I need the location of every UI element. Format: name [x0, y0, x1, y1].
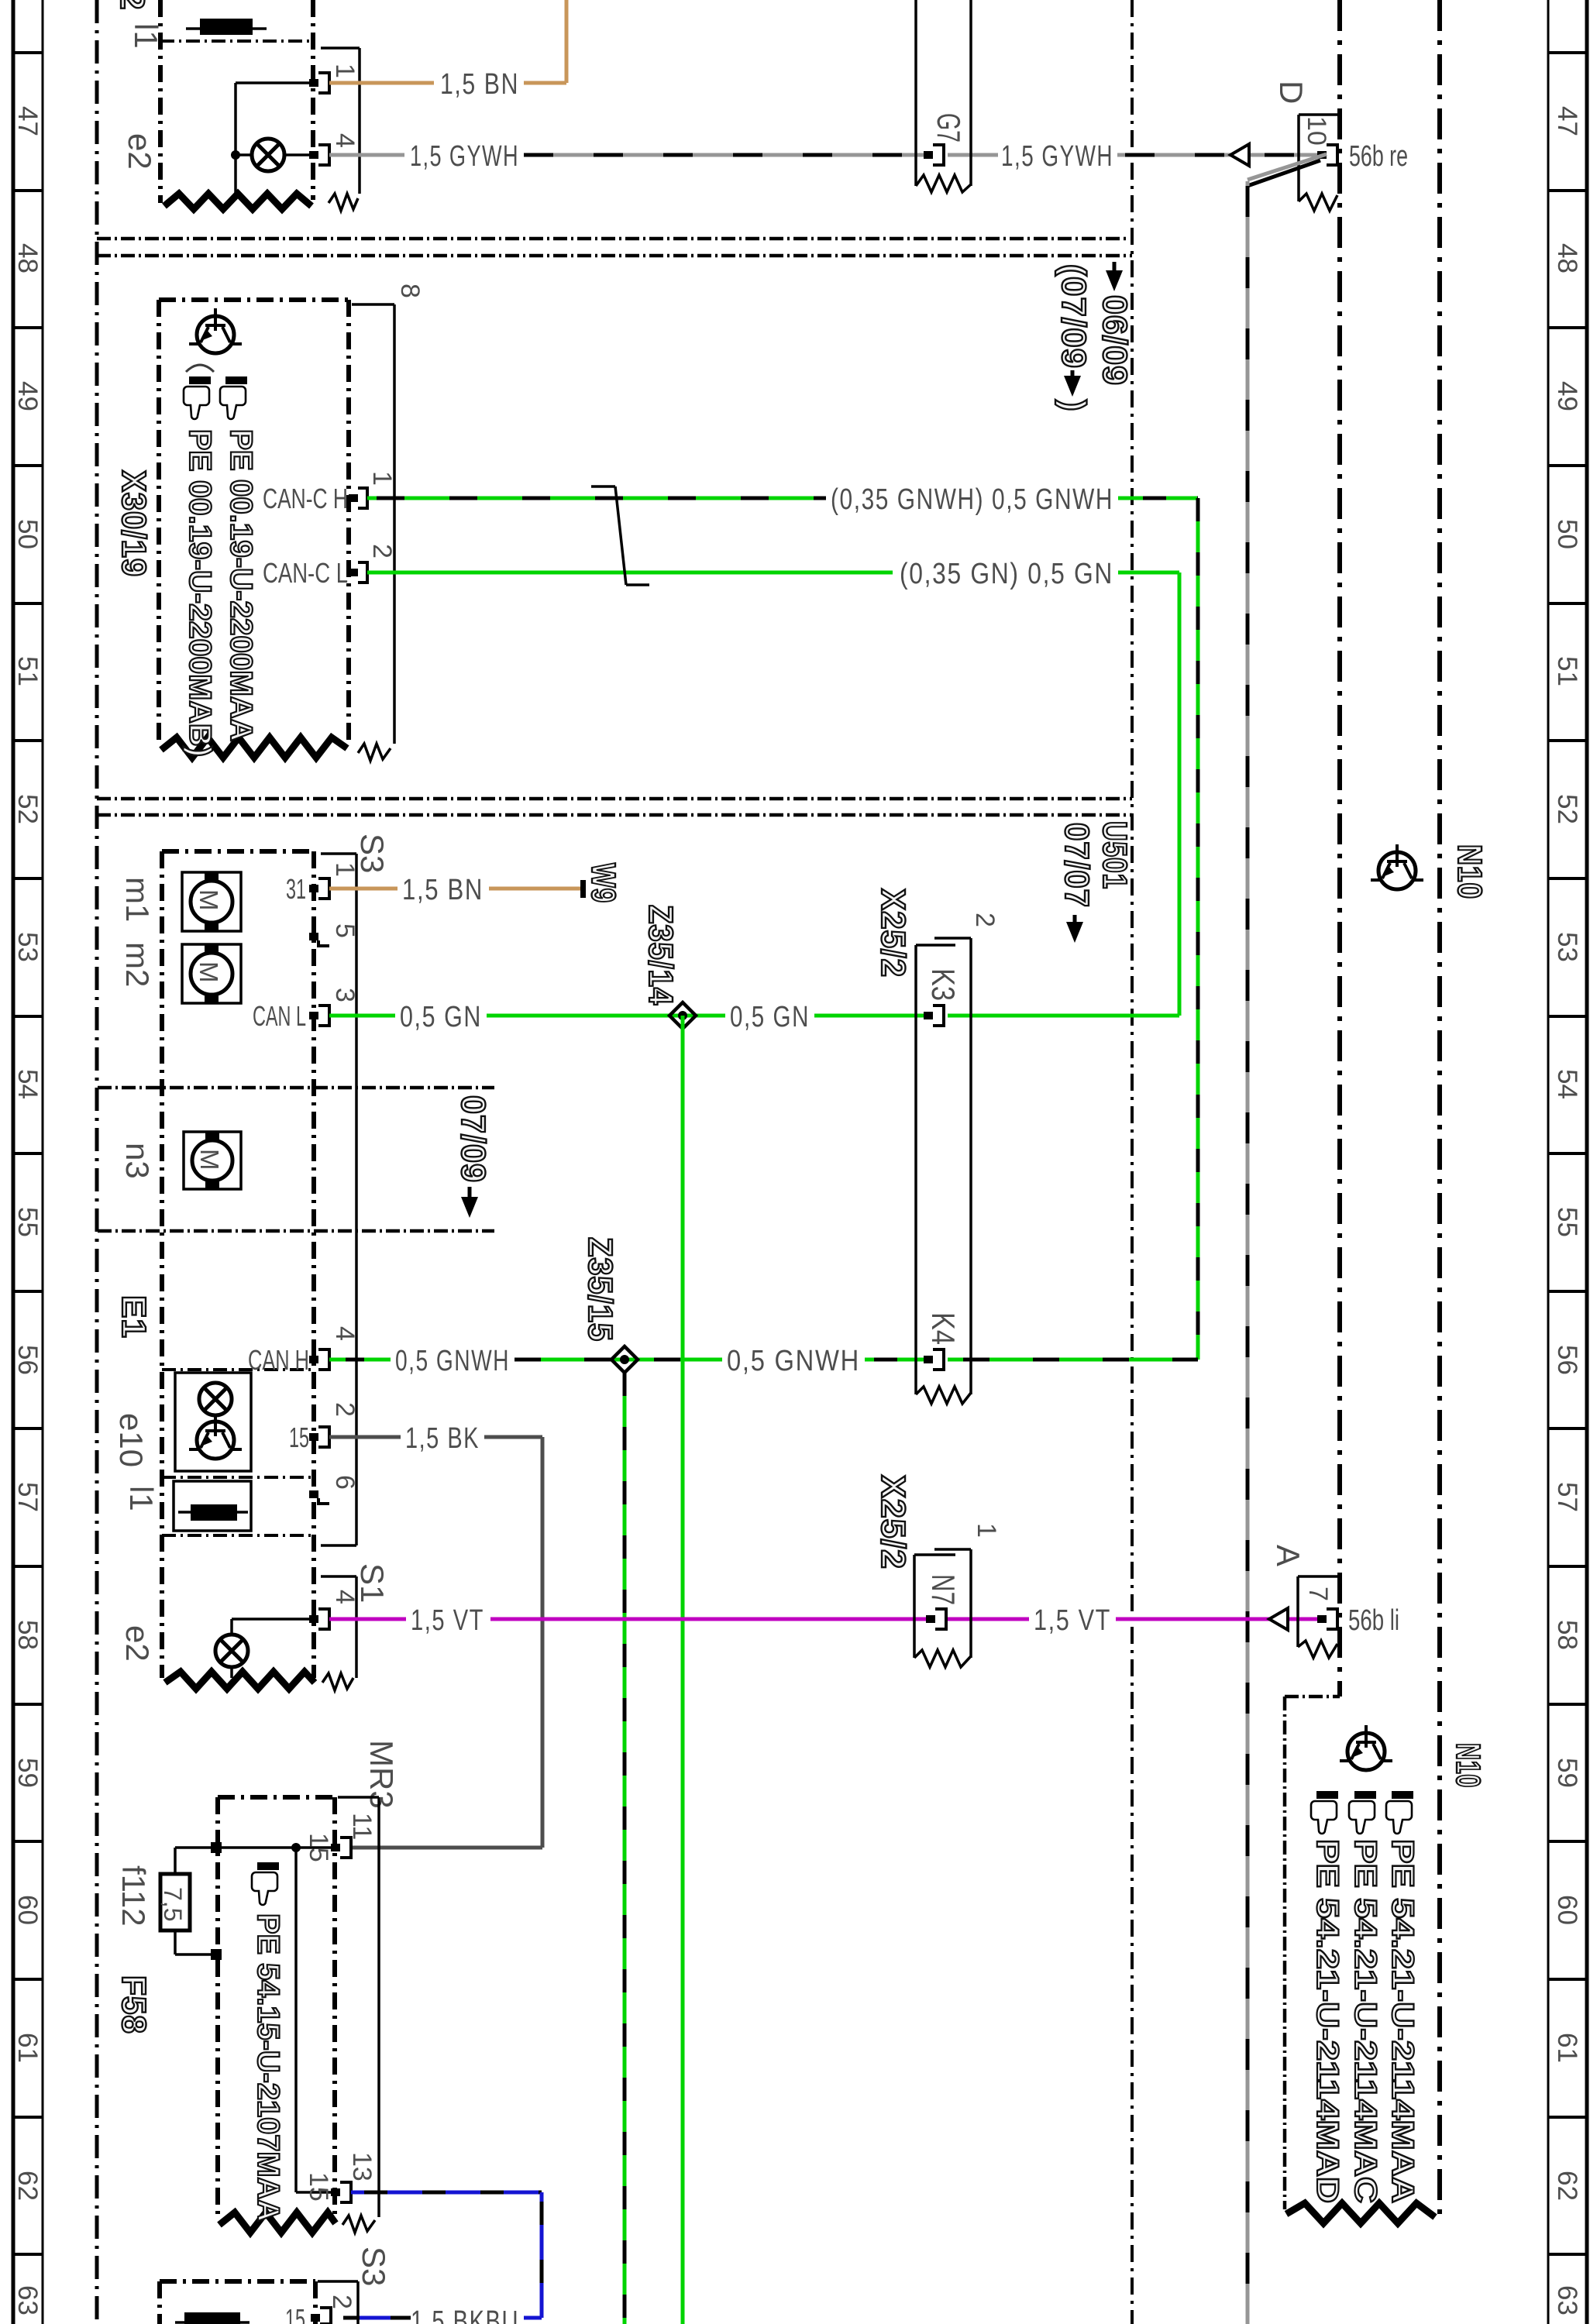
hand symbol PE MAB: [184, 376, 211, 419]
ground zigzag E1 bottom: [165, 1672, 315, 1689]
label 07/07 with arrow: [1058, 823, 1096, 943]
motor m1: [182, 872, 241, 931]
notch f112 top: [211, 1842, 222, 1853]
label f112: [115, 1865, 152, 1927]
svg-text:U501: U501: [1096, 821, 1134, 889]
label G7: [931, 113, 967, 143]
connector line S1: [321, 1576, 356, 1690]
wire 1,5 BKBU: [343, 2192, 542, 2318]
svg-text:X25/2: X25/2: [874, 889, 912, 978]
svg-text:07/07: 07/07: [1058, 823, 1096, 908]
label PE 54.21-U-2114MAA: [1385, 1839, 1420, 2203]
wire label 1,5 BK: [405, 1422, 480, 1455]
pin 7 of A: [1317, 1609, 1337, 1629]
svg-text:15: 15: [289, 1422, 309, 1453]
label Z35/14: [642, 905, 680, 1006]
wire label 0,5 GN (left): [400, 1001, 482, 1033]
svg-text:0,5 GNWH: 0,5 GNWH: [727, 1345, 860, 1377]
label l1 (top): [128, 23, 164, 49]
svg-text:48: 48: [12, 243, 43, 273]
svg-text:3: 3: [330, 988, 360, 1002]
label 56b re: [1349, 140, 1408, 173]
wire GN vertical tap Z35/14: [681, 1016, 685, 2324]
ground terminal W9: [580, 880, 586, 898]
motor m2: [182, 944, 241, 1003]
svg-text:A: A: [1270, 1545, 1306, 1566]
svg-text:56: 56: [1552, 1345, 1582, 1375]
svg-text:15: 15: [285, 2303, 305, 2324]
svg-text:): ): [1055, 400, 1093, 412]
label D: [1273, 81, 1310, 104]
ground zigzag N10 frame bottom: [1286, 2203, 1435, 2223]
pin label 2 (X25/2): [970, 913, 1000, 927]
ground zigzag e2 box bottom: [164, 194, 311, 209]
label F58: [115, 1975, 153, 2034]
label m1: [119, 877, 156, 922]
svg-text:m1: m1: [119, 877, 156, 922]
connector X25/2 (1) box: [914, 1549, 971, 1667]
svg-text:11: 11: [347, 1813, 377, 1840]
wire 0,5 GN (CAN L): [329, 1014, 1179, 1018]
lamp e2 (lower): [215, 1619, 314, 1678]
svg-text:CAN-C L: CAN-C L: [263, 557, 348, 589]
pin label 7: [1303, 1587, 1333, 1601]
connector line MR3: [338, 1797, 379, 2233]
label S3: [354, 834, 391, 873]
wire 1,5 VT: [329, 1618, 1322, 1621]
svg-text:N10: N10: [1451, 844, 1488, 899]
svg-text:G7: G7: [931, 113, 967, 143]
svg-text:50: 50: [1552, 519, 1582, 549]
box X30/19: [159, 300, 349, 745]
label X25/2 (2): [874, 889, 912, 978]
connector X25/2 (2) box: [916, 938, 971, 1404]
ground zigzag X30/19 bottom: [161, 737, 347, 758]
svg-text:56b li: 56b li: [1348, 1604, 1399, 1637]
pin 3 of S3 (CAN L): [253, 1000, 329, 1032]
svg-text:60: 60: [1552, 1895, 1582, 1925]
wire label 1,5 VT (left): [411, 1604, 484, 1637]
label S1: [354, 1563, 391, 1603]
label E1: [115, 1295, 153, 1339]
paren before hand (X30/19): [186, 365, 214, 372]
connector line S3: [321, 854, 356, 1545]
fuse f112: [159, 1874, 190, 1930]
svg-text:1,5 GYWH: 1,5 GYWH: [410, 140, 519, 173]
svg-text:D: D: [1273, 81, 1310, 104]
svg-text:PE 54.21-U-2114MAD: PE 54.21-U-2114MAD: [1310, 1839, 1344, 2203]
junction dot MR3: [291, 1843, 301, 1852]
svg-text:13: 13: [347, 2152, 377, 2181]
svg-text:M: M: [195, 1149, 224, 1171]
wire label 0,5 GNWH (right): [727, 1345, 860, 1377]
wire label 0,5 GNWH (left): [395, 1345, 510, 1377]
pin 1 of S3 (term 31): [286, 873, 329, 905]
svg-text:52: 52: [12, 794, 43, 824]
label W9: [584, 863, 622, 903]
svg-text:1: 1: [972, 1523, 1001, 1538]
svg-text:K4: K4: [925, 1312, 962, 1345]
svg-text:50: 50: [12, 519, 43, 549]
pin label 1 (S3): [330, 862, 360, 877]
control-unit symbol inside e10: [189, 1415, 242, 1459]
label n3: [119, 1143, 156, 1179]
svg-text:60: 60: [12, 1895, 43, 1925]
wire internal MR3 down: [296, 1848, 331, 2192]
pin G7: [924, 145, 944, 165]
svg-text:PE 54.15-U-2107MAA: PE 54.15-U-2107MAA: [251, 1913, 285, 2222]
label 06/09 with arrow (top right variant): [1096, 262, 1134, 386]
label m2: [119, 942, 156, 987]
pin 2 of X30/19: [349, 562, 367, 583]
svg-text:CAN-C H: CAN-C H: [263, 483, 348, 514]
svg-text:51: 51: [1552, 656, 1582, 686]
svg-text:W9: W9: [584, 863, 622, 903]
left ruler border: [13, 0, 43, 2324]
svg-text:1: 1: [330, 64, 360, 78]
bus pair slash symbol: [591, 486, 649, 585]
label 2 (cut label top-left): [113, 0, 151, 10]
svg-text:15: 15: [304, 2172, 333, 2202]
arrow wire-direction 56b re: [1230, 144, 1249, 166]
label PE 54.21-U-2114MAC: [1348, 1839, 1382, 2203]
label K3: [925, 968, 962, 1001]
svg-text:1: 1: [367, 471, 397, 486]
svg-text:2: 2: [970, 913, 1000, 927]
svg-text:1,5 VT: 1,5 VT: [1034, 1604, 1111, 1637]
svg-text:e2: e2: [119, 1625, 156, 1662]
pin label 5 (S3): [330, 923, 360, 938]
pin label 3 (S3): [330, 988, 360, 1002]
svg-text:(0,35 GNWH) 0,5 GNWH: (0,35 GNWH) 0,5 GNWH: [831, 483, 1113, 516]
wire label 1,5 GYWH (right): [1001, 140, 1113, 173]
pin 13/15 of MR3 (bottom): [304, 2172, 351, 2202]
svg-text:2: 2: [113, 0, 151, 10]
wire label (0,35 GNWH) 0,5 GNWH: [831, 483, 1113, 516]
label e2 (lower): [119, 1625, 156, 1662]
svg-text:0,5 GNWH: 0,5 GNWH: [395, 1345, 510, 1377]
svg-text:PE 00.19-U-2200MAB): PE 00.19-U-2200MAB): [183, 429, 217, 757]
svg-text:63: 63: [12, 2285, 43, 2315]
label e2 (top): [122, 133, 158, 170]
svg-text:63: 63: [1552, 2285, 1582, 2315]
svg-text:n3: n3: [119, 1143, 156, 1179]
svg-text:57: 57: [1552, 1482, 1582, 1512]
svg-text:49: 49: [1552, 381, 1582, 411]
wire label 0,5 GN (right): [730, 1001, 810, 1033]
svg-text:M: M: [194, 961, 223, 983]
pin 4 of e2 (top box): [309, 145, 329, 165]
label 56b li: [1348, 1604, 1399, 1637]
label K4: [925, 1312, 962, 1345]
frame 07/09 bottom line: [98, 1229, 494, 1233]
svg-text:55: 55: [12, 1207, 43, 1237]
hand symbol N10 MAC: [1349, 1791, 1376, 1834]
pin 10 of D: [1317, 145, 1337, 165]
svg-text:4: 4: [330, 1326, 360, 1341]
wire 1,5 BN to W9: [329, 887, 580, 891]
svg-text:CAN H: CAN H: [248, 1344, 309, 1376]
svg-text:N10: N10: [1449, 1743, 1487, 1788]
svg-text:E1: E1: [115, 1295, 153, 1339]
box MR3: [218, 1797, 335, 2220]
frame border U501 vertical (dash-dot): [1131, 0, 1134, 2324]
label CAN-C H: [263, 483, 348, 514]
svg-text:1,5 BN: 1,5 BN: [440, 68, 519, 101]
svg-text:58: 58: [1552, 1620, 1582, 1650]
notch f112 bottom: [211, 1949, 222, 1960]
hand symbol MR3: [252, 1862, 279, 1905]
wire label 1,5 BN (top): [440, 68, 519, 101]
svg-text:10: 10: [1302, 116, 1331, 146]
svg-text:61: 61: [1552, 2033, 1582, 2063]
pin 6 of E1 (notch): [309, 1490, 329, 1504]
svg-text:7,5: 7,5: [159, 1887, 187, 1921]
svg-text:1,5 BKBU: 1,5 BKBU: [411, 2305, 519, 2324]
control-unit symbol N10 (bottom): [1340, 1725, 1392, 1770]
wire e2 internal pin1 to ground: [231, 83, 315, 200]
wire GYWH vertical run to 56b: [1246, 181, 1250, 2324]
pin 1 of X30/19: [349, 488, 367, 508]
pin 2 of E1 (term 15): [289, 1422, 329, 1453]
lamp e2 (top): [252, 139, 284, 171]
box e2/l1 (top component box): [160, 0, 313, 203]
splice Z35/15: [611, 1346, 638, 1373]
svg-text:52: 52: [1552, 794, 1582, 824]
wire label 1,5 BN (W9): [402, 874, 484, 906]
label PE 54.21-U-2114MAD: [1310, 1839, 1344, 2203]
pin 1 of e2 (top box): [309, 73, 329, 93]
box S3/E1 (left component stack): [162, 851, 314, 1678]
frame boundary row47/48 line 2: [97, 254, 1132, 258]
wire CAN-C H 0,5 GNWH: [367, 497, 1198, 500]
frame border N10 right vertical (dash-dot): [1437, 0, 1442, 2216]
svg-text:PE 00.19-U-2200MAA: PE 00.19-U-2200MAA: [224, 429, 258, 741]
label 07/09 with arrow (left variant frame): [454, 1095, 492, 1218]
connector D frame: [1299, 115, 1338, 211]
wire label 1,5 VT (right): [1034, 1604, 1111, 1637]
label CAN-C L: [263, 557, 348, 589]
wire 1,5 BN (top): [329, 0, 566, 83]
svg-text:31: 31: [286, 873, 306, 905]
arrow wire-direction 56b li: [1269, 1608, 1288, 1630]
pin label 11: [347, 1813, 377, 1840]
pin K3: [924, 1006, 944, 1026]
frame boundary row51/52 line 2: [97, 813, 1132, 817]
fuse l1 (top): [186, 19, 267, 35]
svg-text:4: 4: [330, 1590, 360, 1604]
svg-text:2: 2: [367, 544, 397, 559]
box S3 (bottom): [160, 2281, 315, 2324]
lamp inside e10: [199, 1383, 232, 1415]
svg-text:56b re: 56b re: [1349, 140, 1408, 173]
label (07/09 arrow ) column: [1055, 264, 1093, 412]
svg-text:Z35/14: Z35/14: [642, 905, 680, 1006]
svg-text:07/09: 07/09: [454, 1095, 492, 1183]
svg-text:1: 1: [330, 862, 360, 877]
svg-text:62: 62: [1552, 2171, 1582, 2201]
svg-text:8: 8: [395, 284, 425, 298]
pin 4 of S1: [309, 1609, 329, 1629]
label X25/2 (1): [874, 1475, 912, 1569]
svg-text:m2: m2: [119, 942, 156, 987]
svg-text:53: 53: [1552, 932, 1582, 962]
wire label 1,5 GYWH (left): [410, 140, 519, 173]
svg-text:l1: l1: [123, 1486, 160, 1511]
svg-text:1,5 VT: 1,5 VT: [411, 1604, 484, 1637]
svg-text:N7: N7: [925, 1574, 962, 1605]
svg-text:X25/2: X25/2: [874, 1475, 912, 1569]
svg-text:53: 53: [12, 932, 43, 962]
wire label 1,5 BKBU: [411, 2305, 519, 2324]
svg-text:Z35/15: Z35/15: [581, 1237, 619, 1342]
svg-text:(0,35 GN) 0,5 GN: (0,35 GN) 0,5 GN: [900, 558, 1113, 590]
pin label 4 (S1): [330, 1590, 360, 1604]
svg-text:l1: l1: [128, 23, 164, 49]
svg-text:1,5 BN: 1,5 BN: [402, 874, 484, 906]
svg-text:06/09: 06/09: [1096, 295, 1134, 386]
splice Z35/14: [669, 1002, 696, 1029]
svg-text:6: 6: [330, 1475, 360, 1490]
svg-text:62: 62: [12, 2171, 43, 2201]
connector zigzag top box: [329, 194, 358, 211]
connector line S3 (bottom): [318, 2281, 358, 2324]
frame boundary row47/48 line 1: [97, 237, 1130, 241]
label N7: [925, 1574, 962, 1605]
svg-text:7: 7: [1303, 1587, 1333, 1601]
wire 1,5 GYWH (top): [329, 153, 1323, 157]
frame border N10 left vertical (dash-dot): [1337, 0, 1342, 1697]
svg-text:(07/09: (07/09: [1055, 264, 1093, 369]
svg-text:58: 58: [12, 1620, 43, 1650]
label MR3: [363, 1740, 400, 1809]
label S3 (bottom): [356, 2247, 392, 2286]
box e10: [175, 1373, 251, 1471]
svg-text:59: 59: [12, 1758, 43, 1788]
frame boundary row51/52 line 1: [97, 797, 1132, 801]
pin 11/15 of MR3 (top): [304, 1833, 351, 1862]
svg-text:54: 54: [12, 1069, 43, 1099]
svg-text:K3: K3: [925, 968, 962, 1001]
control-unit symbol N10 (mid): [1371, 844, 1423, 889]
wire MR3 internal to f112: [175, 1848, 331, 1954]
svg-text:2: 2: [330, 1402, 360, 1417]
svg-text:47: 47: [12, 106, 43, 136]
pin K4: [924, 1349, 944, 1370]
svg-text:0,5 GN: 0,5 GN: [400, 1001, 482, 1033]
wire CAN-C L 0,5 GN: [367, 571, 1179, 575]
label 8 (connector X30/19): [395, 284, 425, 298]
pin label 4 (top box): [330, 133, 360, 148]
label PE 00.19-U-2200MAA: [224, 429, 258, 741]
label U501: [1096, 821, 1134, 889]
svg-text:F58: F58: [115, 1975, 153, 2034]
svg-text:CAN L: CAN L: [253, 1000, 306, 1032]
frame border left vertical (dash-dot): [95, 0, 99, 2324]
pin label 13: [347, 2152, 377, 2181]
hand symbol N10 MAD: [1311, 1791, 1338, 1834]
wire GNWH vertical right: [1196, 498, 1200, 1360]
hand symbol PE MAA: [220, 376, 247, 419]
box l1 with fuse: [174, 1481, 251, 1531]
pin label 1 (X25/2): [972, 1523, 1001, 1538]
svg-text:PE 54.21-U-2114MAA: PE 54.21-U-2114MAA: [1385, 1839, 1420, 2203]
connector line top box: [321, 48, 360, 194]
wire 56b re drop diagonal: [1248, 154, 1327, 186]
connector G7: [916, 0, 971, 192]
pin label 4 (E1): [330, 1326, 360, 1341]
pin 5 of S3 (notch): [309, 933, 329, 946]
frame N10 (bottom right): [1285, 1697, 1340, 2209]
pin label 2 (E1): [330, 1402, 360, 1417]
wire GN vertical right: [1178, 572, 1182, 1016]
label PE 54.15-U-2107MAA: [251, 1913, 285, 2222]
svg-text:54: 54: [1552, 1069, 1582, 1099]
pin 15 of bottom S3: [285, 2303, 331, 2324]
right ruler border: [1548, 0, 1587, 2324]
pin label 1 (X30/19): [367, 471, 397, 486]
label N10 (mid): [1451, 844, 1488, 899]
label (PE 00.19-U-2200MAB): [183, 429, 217, 757]
svg-text:48: 48: [1552, 243, 1582, 273]
hand symbol N10 MAA: [1386, 1791, 1413, 1834]
label l1 (lower): [123, 1486, 160, 1511]
svg-text:61: 61: [12, 2033, 43, 2063]
connector line X30/19: [352, 304, 394, 761]
svg-text:f112: f112: [115, 1865, 152, 1927]
wire 1,5 BK: [329, 1437, 542, 1848]
frame 07/09 top line: [98, 1086, 494, 1090]
svg-text:59: 59: [1552, 1758, 1582, 1788]
pin 4 of E1 (CAN H): [248, 1344, 329, 1376]
svg-text:1,5 BK: 1,5 BK: [405, 1422, 480, 1455]
label e10: [113, 1413, 150, 1467]
pin label 6 (E1): [330, 1475, 360, 1490]
svg-text:e10: e10: [113, 1413, 150, 1467]
svg-text:51: 51: [12, 656, 43, 686]
pin label 10: [1302, 116, 1331, 146]
label A: [1270, 1545, 1306, 1566]
wire GNWH vertical tap Z35/15: [623, 1373, 627, 2324]
label Z35/15: [581, 1237, 619, 1342]
svg-text:5: 5: [330, 923, 360, 938]
svg-text:47: 47: [1552, 106, 1582, 136]
pin N7: [926, 1609, 946, 1629]
svg-text:X30/19: X30/19: [115, 470, 153, 577]
label N10 (bottom): [1449, 1743, 1487, 1788]
fuse inside bottom S3: [175, 2312, 250, 2324]
pin label 2 (X30/19): [367, 544, 397, 559]
svg-text:57: 57: [12, 1482, 43, 1512]
pin label 1 (top box): [330, 64, 360, 78]
svg-text:M: M: [194, 889, 223, 911]
svg-text:55: 55: [1552, 1207, 1582, 1237]
wire label (0,35 GN) 0,5 GN: [900, 558, 1113, 590]
connector A frame: [1298, 1576, 1338, 1658]
svg-text:0,5 GN: 0,5 GN: [730, 1001, 810, 1033]
svg-text:1,5 GYWH: 1,5 GYWH: [1001, 140, 1113, 173]
control-unit symbol X30/19: [189, 308, 242, 353]
pin label 2 (bottom S3): [327, 2295, 356, 2309]
svg-text:4: 4: [330, 133, 360, 148]
wire 0,5 GNWH (CAN H): [329, 1358, 1198, 1362]
svg-text:49: 49: [12, 381, 43, 411]
svg-text:PE 54.21-U-2114MAC: PE 54.21-U-2114MAC: [1348, 1839, 1382, 2203]
svg-text:56: 56: [12, 1345, 43, 1375]
ground zigzag MR3 bottom: [219, 2212, 336, 2233]
label X30/19: [115, 470, 153, 577]
motor n3: [184, 1132, 241, 1189]
